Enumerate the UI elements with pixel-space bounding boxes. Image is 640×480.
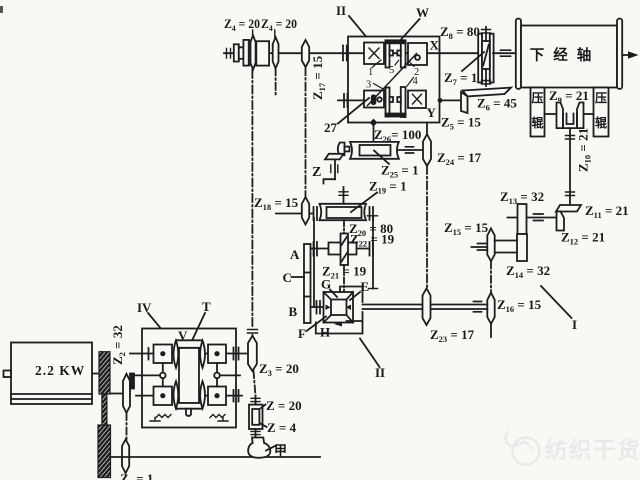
leader IV xyxy=(148,313,160,328)
svg-text:辊: 辊 xyxy=(595,115,607,130)
shaft E vertical xyxy=(372,216,374,289)
svg-text:辊: 辊 xyxy=(531,115,543,130)
bearing IV bottom-right xyxy=(218,418,228,422)
svg-text:II: II xyxy=(336,3,346,18)
gear Z13 xyxy=(518,204,527,234)
svg-text:Z14 = 32: Z14 = 32 xyxy=(506,263,550,280)
ground shaft line xyxy=(110,456,320,458)
motor 2.2KW xyxy=(4,343,93,405)
leader T xyxy=(193,313,206,340)
gear Z24 lens xyxy=(423,134,431,166)
svg-text:W: W xyxy=(416,5,429,20)
svg-text:C: C xyxy=(283,270,292,285)
worm shaft stubs xyxy=(485,27,487,41)
svg-text:Z22 = 19: Z22 = 19 xyxy=(350,232,395,249)
bell weight xyxy=(248,438,270,458)
clutch UL xyxy=(364,43,384,65)
stub left of Z15 xyxy=(472,246,488,248)
shaft IV bottom xyxy=(136,395,242,397)
gear square LR xyxy=(208,387,226,406)
svg-text:V: V xyxy=(178,328,188,343)
shaft Z10 vertical xyxy=(569,128,571,204)
svg-text:Z4 = 20: Z4 = 20 xyxy=(224,16,260,33)
svg-text:1: 1 xyxy=(368,67,373,78)
press roller right xyxy=(594,88,609,137)
svg-text:Z8 = 80: Z8 = 80 xyxy=(440,24,480,41)
bearing lower left xyxy=(343,94,345,107)
clutch LL xyxy=(364,91,384,108)
svg-text:Z12 = 21: Z12 = 21 xyxy=(561,230,605,247)
bevel Z9 right plate xyxy=(577,103,584,129)
link shaft left xyxy=(162,363,164,387)
warp beam flange left xyxy=(516,19,521,90)
diff diagonals xyxy=(324,292,332,300)
bevel Z9 left plate xyxy=(557,103,564,129)
bearing IV left xyxy=(148,348,150,360)
svg-text:Z17 = 15: Z17 = 15 xyxy=(310,55,327,100)
svg-text:Z5 = 15: Z5 = 15 xyxy=(441,115,481,132)
carrier shaft down xyxy=(373,123,375,143)
watermark logo xyxy=(506,432,540,465)
shaft I double line xyxy=(363,304,488,306)
bearing cross right xyxy=(369,242,371,256)
svg-text:Z6 = 45: Z6 = 45 xyxy=(477,96,517,113)
bracket E xyxy=(340,287,363,303)
gear Z22 horizontal xyxy=(329,243,357,255)
axis cross upper xyxy=(343,220,345,233)
planet link diagonal xyxy=(368,54,417,106)
gear Z3 lens xyxy=(248,336,257,371)
svg-text:5: 5 xyxy=(389,65,394,76)
bevel Z11 plate xyxy=(556,205,581,212)
svg-text:Z24 = 17: Z24 = 17 xyxy=(437,150,482,167)
pulley Z1 lens xyxy=(122,439,129,473)
belt pulley hatched column xyxy=(98,352,111,478)
svg-text:27: 27 xyxy=(324,120,338,135)
warp beam body xyxy=(521,26,617,88)
svg-text:B: B xyxy=(289,304,298,319)
cone lower-right xyxy=(200,381,205,408)
svg-text:Z15 = 15: Z15 = 15 xyxy=(444,220,489,237)
axis below lens B xyxy=(275,68,277,96)
warp beam flange right xyxy=(617,19,622,90)
bearing Z19 left xyxy=(313,207,315,220)
svg-text:纺织干货: 纺织干货 xyxy=(545,437,640,463)
gearbox II frame xyxy=(348,37,440,123)
svg-text:Z9 = 21: Z9 = 21 xyxy=(549,88,589,105)
worm wheel Z8 plates xyxy=(480,34,482,83)
clutch LR xyxy=(408,91,426,109)
cone lower-left xyxy=(174,381,179,408)
pulley lens A xyxy=(251,35,256,69)
svg-text:I: I xyxy=(572,317,577,332)
shaft stub lower left xyxy=(338,99,364,101)
press roller left xyxy=(531,88,545,137)
svg-text:Y: Y xyxy=(427,105,437,120)
gear Z14 xyxy=(517,234,527,261)
svg-text:Z = 20: Z = 20 xyxy=(266,398,302,413)
svg-text:Z26= 100: Z26= 100 xyxy=(374,127,421,144)
svg-text:3: 3 xyxy=(366,80,371,91)
shaft Z vertical crank xyxy=(334,159,336,179)
svg-text:Z16 = 15: Z16 = 15 xyxy=(497,297,542,314)
gear Z23 lens xyxy=(423,288,431,325)
gear Z16 lens xyxy=(487,293,494,324)
svg-text:下经轴: 下经轴 xyxy=(530,46,601,64)
svg-text:Z23 = 17: Z23 = 17 xyxy=(430,327,475,344)
bearing above Z3 xyxy=(248,330,258,334)
svg-text:Z2 = 32: Z2 = 32 xyxy=(110,325,127,365)
svg-text:Z11 = 21: Z11 = 21 xyxy=(585,203,629,220)
stepped hub xyxy=(234,44,239,61)
svg-text:IV: IV xyxy=(137,300,152,315)
motor shaft xyxy=(92,373,100,375)
bevel cap xyxy=(338,143,345,156)
pulley cluster shaft xyxy=(224,52,348,54)
shaft Z20 row xyxy=(311,248,369,250)
bevel flat plate xyxy=(325,154,344,160)
axis Z24 to Z23 xyxy=(426,166,428,289)
bearing block wall xyxy=(130,374,134,389)
belt mark to beam xyxy=(493,52,516,54)
svg-text:Z18 = 15: Z18 = 15 xyxy=(254,195,299,212)
bearing IV bottom-left xyxy=(150,418,160,422)
svg-text:Z3 = 20: Z3 = 20 xyxy=(259,361,299,378)
label II bottom xyxy=(360,339,380,368)
roller shafts xyxy=(545,113,558,115)
svg-text:甲: 甲 xyxy=(274,443,287,458)
clutch UR xyxy=(408,43,427,65)
axis cross to diff xyxy=(343,265,345,292)
shaft F stub xyxy=(311,306,324,308)
shaft Z18-Z19 xyxy=(276,213,312,215)
svg-text:Z25 = 1: Z25 = 1 xyxy=(381,163,419,180)
axis line pulley to worm xyxy=(251,70,253,327)
bevel Z6 plate xyxy=(463,88,512,97)
bearing F xyxy=(316,301,318,314)
bevel pair top xyxy=(385,40,406,68)
wire bar to Z2 xyxy=(110,393,122,395)
sleeve Z15-Z14 xyxy=(495,240,517,242)
bevel pair bottom xyxy=(385,87,406,117)
svg-text:II: II xyxy=(375,365,385,380)
spring right xyxy=(210,415,225,418)
cone upper-left xyxy=(174,341,179,368)
pulley drum xyxy=(256,41,269,65)
gear Z18 lens xyxy=(302,197,309,225)
shaft X to worm xyxy=(440,52,480,54)
svg-text:Z4 = 20: Z4 = 20 xyxy=(261,16,297,33)
pulley lens B xyxy=(273,37,279,68)
gear Z20 vertical xyxy=(341,234,349,266)
bracket H xyxy=(316,312,363,334)
pulley plate 1 xyxy=(243,40,248,66)
svg-text:E: E xyxy=(361,279,370,294)
svg-text:X: X xyxy=(430,38,440,53)
diff inner square xyxy=(331,300,347,316)
bearing IV right top xyxy=(233,348,235,360)
worm output to Z24 xyxy=(399,149,423,151)
gear square UR xyxy=(208,345,226,364)
bearing cross left xyxy=(313,242,315,256)
shaft X inside xyxy=(348,52,440,54)
worm unit Z=20 Z=4 xyxy=(249,396,263,438)
arrow H xyxy=(334,322,342,327)
svg-text:Z13 = 32: Z13 = 32 xyxy=(500,189,544,206)
label I with leader xyxy=(541,286,572,318)
detent stub xyxy=(186,409,191,416)
side gear arrows xyxy=(326,305,331,311)
shaft left vertical xyxy=(313,218,315,307)
worm Z19 barrel xyxy=(320,204,367,220)
gear Z2 lens xyxy=(123,374,130,413)
node Y output xyxy=(438,98,443,103)
axis Z17 to Z18 xyxy=(305,67,307,196)
diff outer square xyxy=(324,292,354,323)
svg-text:F: F xyxy=(298,326,306,341)
gear square LL xyxy=(154,387,173,406)
bevel wheel U xyxy=(563,114,577,129)
gear square UL xyxy=(154,345,173,364)
bevel Z12 plate xyxy=(557,212,565,231)
gearbox IV frame xyxy=(142,329,236,428)
shaft IV top xyxy=(130,353,248,355)
spring left xyxy=(156,415,171,418)
bearing Z19 right xyxy=(369,207,371,220)
svg-text:Z: Z xyxy=(312,165,321,180)
svg-text:H: H xyxy=(320,325,330,340)
gear Z15 lens xyxy=(487,228,494,261)
svg-text:2.2 KW: 2.2 KW xyxy=(35,363,85,378)
svg-text:Z19 = 1: Z19 = 1 xyxy=(369,179,407,196)
svg-text:T: T xyxy=(202,299,211,314)
svg-text:A: A xyxy=(290,247,300,262)
cone spool V xyxy=(175,340,204,408)
cone upper-right xyxy=(200,341,205,368)
bearing IV right bottom xyxy=(233,390,235,402)
svg-text:Z1 = 1: Z1 = 1 xyxy=(120,471,153,480)
worm gear Z26/Z25 barrel xyxy=(350,142,399,159)
shaft end hatch xyxy=(227,49,231,59)
worm Z7 xyxy=(482,41,490,69)
gear Z17 lens xyxy=(302,40,309,67)
carrier junction xyxy=(370,119,378,127)
axis Z15 to Z16 xyxy=(490,261,492,292)
worm Z19 top stub xyxy=(343,187,345,204)
shaft IV middle xyxy=(134,374,160,376)
svg-text:Z7 = 1: Z7 = 1 xyxy=(444,70,477,87)
beam output arrow xyxy=(622,54,629,56)
svg-text:Z = 4: Z = 4 xyxy=(267,420,297,435)
shaft Y down xyxy=(426,123,428,135)
svg-text:Z10 = 21: Z10 = 21 xyxy=(576,128,593,172)
link shaft right xyxy=(216,363,218,387)
bearing box left top xyxy=(342,46,344,61)
svg-text:压: 压 xyxy=(531,91,543,105)
gear cluster ACB bar xyxy=(304,244,311,323)
svg-text:压: 压 xyxy=(595,91,607,105)
shaft to Z13 xyxy=(508,217,557,219)
shaft axis Z2 to Z1 xyxy=(126,413,128,439)
